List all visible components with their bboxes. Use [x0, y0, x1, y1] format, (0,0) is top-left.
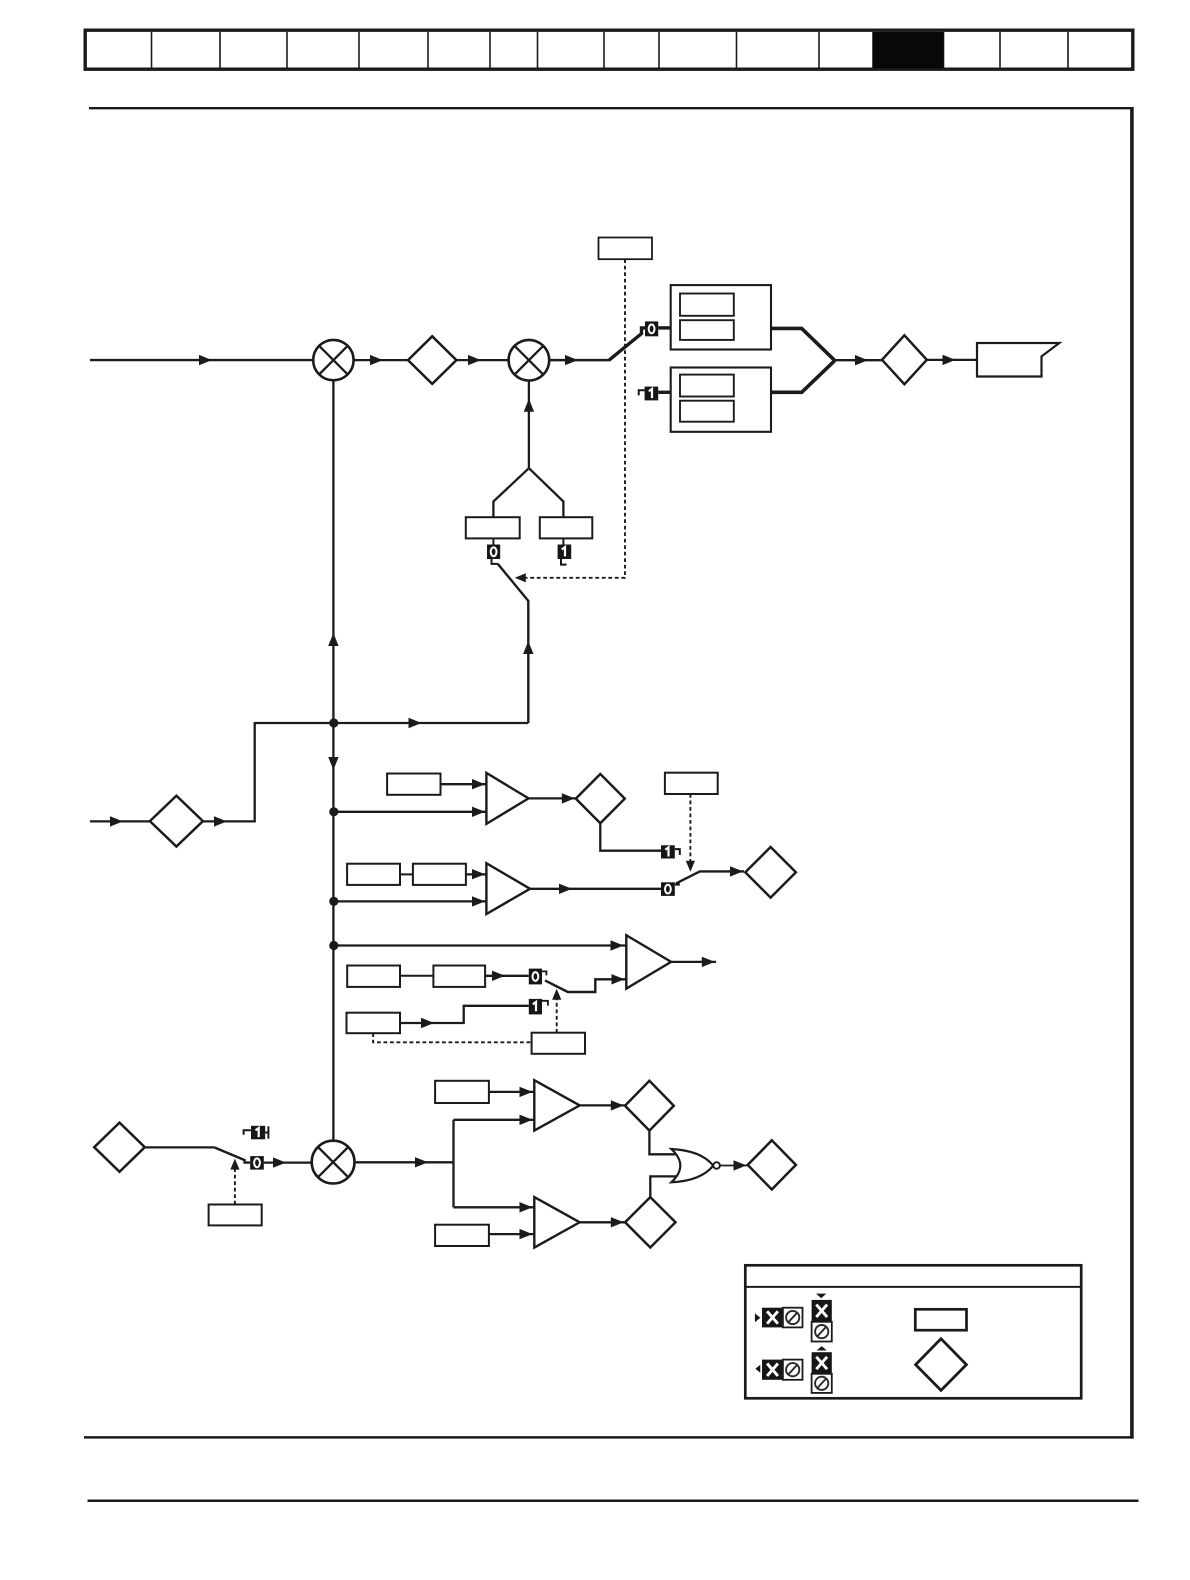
output tag T1	[977, 343, 1059, 377]
arrow left input	[110, 816, 123, 826]
arrow A2 to S3	[559, 884, 572, 894]
arrow riser up	[523, 641, 533, 654]
menu cell divider 14	[999, 32, 1001, 68]
switch S3 contact 1	[661, 845, 675, 858]
switch S2 contact 0 latch mark	[492, 559, 498, 564]
wire left input	[90, 820, 150, 822]
wire M1 to D1	[354, 359, 409, 361]
menu cell divider 2	[219, 32, 221, 68]
arrow A1 to D4	[562, 793, 575, 803]
arrow merge to D2	[855, 355, 868, 365]
diamond D8	[625, 1197, 675, 1247]
wire split to amp A4 lower input	[454, 1119, 535, 1121]
wire A1 to D4	[529, 797, 577, 799]
arrow bus tap to A1	[472, 807, 485, 817]
amplifier A4	[534, 1080, 579, 1130]
arrow P11 to S4	[492, 971, 505, 981]
arrow M3 to split	[415, 1157, 428, 1167]
amplifier A5	[534, 1197, 579, 1248]
dashed arrow onto switch S4	[552, 989, 561, 1000]
junction J1	[329, 718, 338, 727]
arrow split to A4	[520, 1115, 533, 1125]
dashed control P7 to switch S3	[689, 794, 691, 865]
multiplier M2	[509, 340, 550, 381]
diamond D3 left input	[150, 796, 203, 847]
wire D7 to NOR gate	[649, 1131, 676, 1155]
parameter box P8	[347, 864, 400, 885]
parameter block P1	[671, 285, 771, 349]
wire bus tap to amp A3	[334, 944, 627, 946]
wire junction to riser	[334, 722, 529, 724]
wire bus tap to A2	[334, 900, 487, 902]
dashed arrow onto switch S5	[230, 1159, 239, 1170]
legend row2 write X cell (black)	[812, 1352, 832, 1374]
dashed link P12 to P13	[373, 1033, 531, 1042]
wire split vertical	[452, 1120, 454, 1208]
switch S5 contact 1	[251, 1126, 265, 1140]
legend row2 0X cell with no-entry glyph	[783, 1360, 803, 1380]
arrow U1 to D9	[734, 1160, 747, 1170]
switch S5 wiper	[214, 1147, 250, 1162]
legend write X cell (black)	[812, 1300, 832, 1322]
switch S3 contact 0 latch mark	[675, 882, 679, 885]
diamond D4	[576, 774, 625, 823]
arrow bus tap to A3	[611, 940, 624, 950]
diamond D7	[625, 1081, 674, 1131]
switch S1 contact 0	[645, 321, 658, 336]
wire S2 to M2 lower input	[528, 381, 530, 469]
wire merge to D2	[835, 359, 882, 361]
menu cell divider 1	[151, 32, 153, 68]
menu cell divider 13	[943, 32, 945, 68]
wire Y left branch	[493, 468, 529, 517]
diamond D6 bottom input	[94, 1123, 145, 1172]
parameter box P15	[435, 1081, 489, 1103]
wire main input	[90, 359, 315, 361]
wire D3 to junction J1	[203, 723, 334, 821]
legend row2 X cell (black)	[762, 1360, 783, 1380]
arrow P9 to A2	[472, 869, 485, 879]
amplifier A3	[626, 935, 671, 988]
wire Y right branch	[529, 468, 564, 517]
arrow P16 to A5	[520, 1229, 533, 1239]
arrow into M2	[524, 399, 534, 412]
parameter box P16	[435, 1225, 489, 1246]
switch S3 contact 1 latch mark	[675, 849, 680, 855]
diamond D9	[748, 1140, 796, 1189]
parameter block P2	[671, 368, 771, 432]
menu cell divider 12	[872, 32, 874, 68]
parameter box P4	[466, 517, 520, 538]
dashed arrow onto switch S2	[515, 573, 526, 582]
switch S4 contact 0 latch mark	[542, 971, 546, 975]
arrow bus down	[328, 757, 338, 770]
wire M2 to switch S1	[549, 359, 610, 362]
wire D4 to switch S3 contact 1	[600, 823, 661, 851]
legend read X cell (black)	[762, 1308, 783, 1328]
parameter box P12	[347, 1013, 401, 1033]
junction J2	[329, 807, 338, 816]
wire P15 to amp A4	[489, 1091, 534, 1093]
switch S5 contact 1 latch mark left	[244, 1130, 251, 1135]
thick wire P2 to merge	[771, 361, 835, 393]
NOR gate U1	[671, 1149, 713, 1182]
arrow junction to riser	[409, 718, 422, 728]
arrow bus tap to A2	[472, 896, 485, 906]
wire P8 to P9	[400, 873, 413, 875]
switch S4 contact 0	[529, 969, 542, 985]
arrow P6 to A1	[472, 779, 485, 789]
parameter P2 lower field	[680, 401, 734, 422]
arrow A3 output	[702, 957, 715, 967]
legend read arrowhead	[755, 1313, 760, 1322]
legend write 0X cell with no-entry glyph	[812, 1322, 832, 1342]
legend row2 arrowhead (up)	[817, 1346, 827, 1350]
switch S1 contact 1 latch mark	[639, 390, 645, 395]
switch S3 wiper to D5	[676, 871, 744, 883]
menu cell divider 8	[603, 32, 605, 68]
parameter P1 lower field	[680, 320, 734, 340]
arrow S5 to M3	[273, 1157, 286, 1167]
parameter box P9	[413, 864, 466, 885]
NOR gate U1 inversion bubble	[713, 1162, 720, 1169]
arrow split to A5	[520, 1202, 533, 1212]
wire D6 to switch S5	[145, 1146, 215, 1148]
wire M1 feedback bus vertical	[332, 380, 334, 1141]
parameter box P10	[347, 966, 400, 987]
menu cell divider 11	[818, 32, 820, 68]
wire P11 to switch S4 contact 0	[485, 975, 529, 977]
multiplier M1	[313, 340, 353, 380]
wire P12 to switch S4 contact 1	[400, 1006, 529, 1023]
mode parameter box P3	[599, 238, 653, 260]
legend sample parameter box	[915, 1309, 966, 1330]
switch S1 contact 1	[645, 387, 659, 401]
menu cell divider 6	[489, 32, 491, 68]
switch S2 contact 1	[558, 545, 572, 560]
menu cell divider 3	[286, 32, 288, 68]
switch S1 wiper	[609, 328, 645, 360]
wire P10 to P11	[400, 975, 433, 977]
wire A5 to D8	[580, 1221, 626, 1223]
amplifier A2	[486, 863, 530, 914]
arrow S4 to A3	[612, 974, 625, 984]
switch S2 wiper and riser	[498, 564, 529, 723]
diamond D1	[408, 336, 456, 384]
dashed arrow onto switch S3	[686, 861, 695, 872]
legend sample diamond	[916, 1339, 967, 1391]
wire D1 to M2	[456, 359, 508, 361]
switch S4 wiper to A3 lower input	[545, 979, 626, 992]
menu cell divider 9	[658, 32, 660, 68]
junction J4	[329, 941, 338, 950]
arrow main input	[199, 355, 212, 365]
menu cell divider 5	[427, 32, 429, 68]
diamond D2	[882, 335, 927, 384]
parameter box P6	[387, 774, 440, 795]
wire A2 to switch S3 contact 0	[530, 888, 661, 890]
thick wire P1 to merge	[771, 328, 835, 360]
mode parameter box P13	[532, 1033, 585, 1054]
wire P16 to amp A5	[489, 1233, 534, 1235]
legend read 0X cell with no-entry glyph	[783, 1308, 803, 1328]
switch S4 contact 1	[529, 999, 542, 1015]
dashed control P3 to switch S2	[522, 259, 625, 578]
wire split to amp A5 upper input	[454, 1206, 535, 1208]
wire S5 to multiplier M3	[264, 1161, 312, 1163]
junction J3	[329, 897, 338, 906]
arrow D2 to output tag	[943, 355, 956, 365]
legend row2 0X cell bottom with no-entry glyph	[812, 1374, 832, 1393]
stub P4 to contact	[492, 538, 494, 544]
dashed control P14 to switch S5	[234, 1165, 236, 1205]
switch S5 contact 1 latch mark right	[265, 1132, 268, 1134]
parameter box P11	[433, 966, 485, 987]
mode parameter box P14	[209, 1205, 262, 1226]
wire S1-1 to parameter block P2	[658, 391, 671, 394]
frame right edge	[1130, 107, 1134, 1439]
wire bus tap to A1	[334, 811, 487, 813]
arrow M1 to D1	[370, 355, 383, 365]
wire D8 to NOR gate	[650, 1176, 676, 1197]
arrow M2 to S1	[565, 355, 578, 365]
menu bar frame	[85, 30, 1133, 69]
dashed control P13 to switch S4	[556, 996, 558, 1033]
arrow S3 to D5	[730, 866, 743, 876]
arrow A5 to D8	[611, 1217, 624, 1227]
arrow bus up to M1	[328, 633, 338, 646]
parameter P1 upper field	[680, 294, 734, 316]
arrow P12 to S4-1	[421, 1018, 434, 1028]
parameter P2 upper field	[680, 375, 734, 397]
mode parameter box P7	[665, 773, 718, 794]
frame bottom edge	[84, 1436, 1134, 1439]
arrow A4 to D7	[611, 1100, 624, 1110]
stub P5 to contact	[562, 538, 564, 544]
parameter box P5	[540, 517, 593, 538]
legend box	[745, 1265, 1081, 1398]
wire P6 to amp A1	[441, 783, 487, 785]
menu cell divider 4	[358, 32, 360, 68]
wire S1-0 to parameter block P1	[658, 326, 671, 329]
amplifier A1	[486, 773, 528, 824]
switch S2 contact 1 latch mark	[561, 559, 567, 565]
switch S4 contact 1 latch mark	[542, 1001, 548, 1006]
legend header rule	[745, 1286, 1081, 1288]
menu cell divider 7	[537, 32, 539, 68]
arrow D3 to junction	[214, 816, 227, 826]
legend write arrowhead (down)	[816, 1294, 826, 1299]
wire D2 to output tag	[927, 359, 978, 361]
switch S2 contact 0	[487, 545, 500, 560]
wire U1 to D9	[720, 1165, 748, 1167]
switch S5 contact 0	[250, 1156, 264, 1170]
arrow P15 to A4	[520, 1087, 533, 1097]
legend write arrowhead (left)	[755, 1365, 760, 1373]
footer rule	[88, 1499, 1139, 1502]
multiplier M3	[312, 1141, 355, 1184]
menu cell divider 10	[736, 32, 738, 68]
wire M3 to split	[355, 1161, 454, 1163]
switch S3 contact 0	[661, 882, 675, 896]
wire A4 to D7	[580, 1104, 626, 1106]
arrow D1 to M2	[468, 355, 481, 365]
wire P9 to amp A2	[466, 873, 487, 875]
menu cell highlighted (black)	[873, 32, 944, 68]
wire A3 output	[671, 961, 716, 963]
diamond D5	[745, 847, 796, 898]
frame top edge	[89, 107, 1134, 109]
menu cell divider 15	[1067, 32, 1069, 68]
